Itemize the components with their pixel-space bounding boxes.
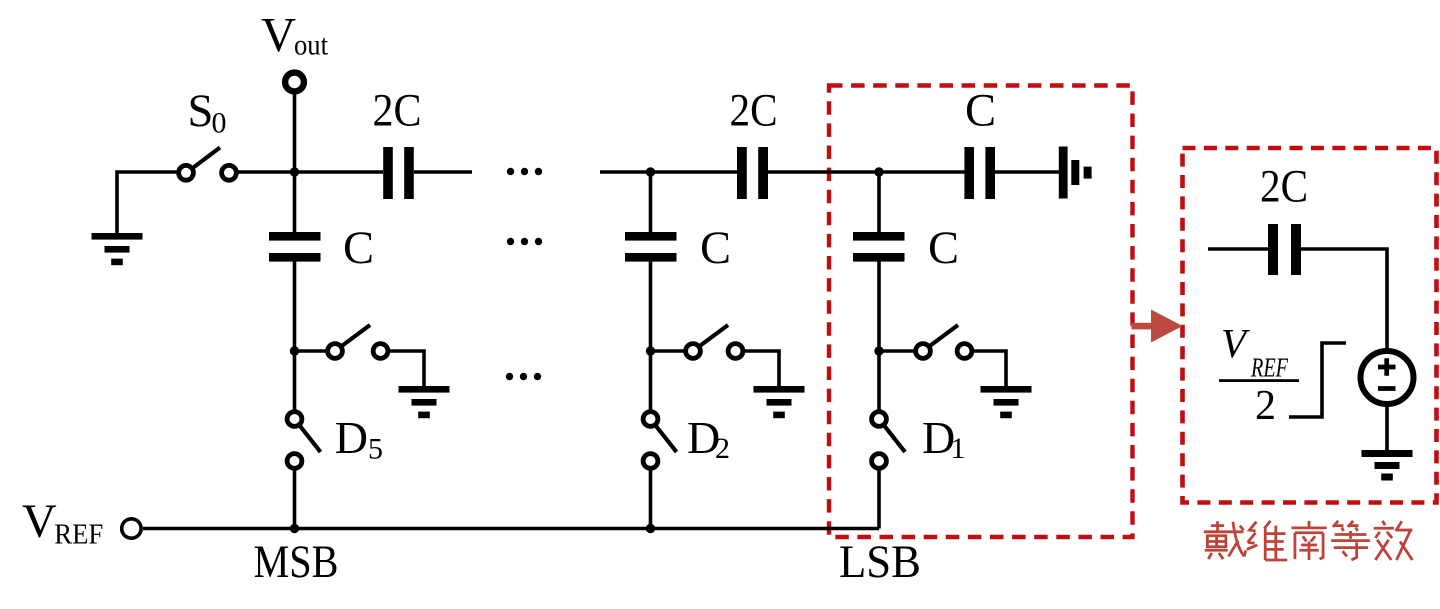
switch LSB reset lever xyxy=(923,325,958,351)
wire MSB reset branch xyxy=(295,349,336,353)
switch MSB reset contact right xyxy=(373,344,388,359)
switch S0 contact right xyxy=(222,165,237,180)
svg-text:REF: REF xyxy=(54,519,103,551)
switch D5 contact top xyxy=(287,412,302,427)
node MSB switch junction xyxy=(290,346,299,355)
node bit2 switch junction xyxy=(646,346,655,355)
switch D1 lever xyxy=(879,419,905,452)
wire MSB reset to ground xyxy=(381,351,425,386)
terminal Vout xyxy=(285,73,304,92)
svg-text:C: C xyxy=(965,86,996,137)
wire bit2 lower vertical xyxy=(649,262,653,412)
svg-text:1: 1 xyxy=(951,432,966,465)
svg-text:2C: 2C xyxy=(1260,162,1308,213)
arrow LSB to Thevenin xyxy=(1132,310,1183,343)
ground MSB reset xyxy=(399,386,450,418)
switch D1 contact bottom xyxy=(872,454,887,469)
svg-text:S: S xyxy=(188,86,214,137)
capacitor C LSB (series) xyxy=(964,147,995,199)
wire VREF bottom rail xyxy=(143,527,879,531)
node at rail bit2 xyxy=(646,167,655,176)
wire bit2 cell vertical xyxy=(649,172,653,232)
svg-text:C: C xyxy=(928,223,959,274)
Thevenin inset: ground xyxy=(1362,450,1413,481)
dots ellipsis cap row xyxy=(507,238,542,245)
switch LSB reset contact right xyxy=(957,344,972,359)
ground bit2 reset xyxy=(754,386,805,418)
terminal VREF xyxy=(122,519,141,538)
svg-text:2C: 2C xyxy=(730,86,778,137)
switch bit2 reset lever xyxy=(693,325,728,351)
wire LSB cell vertical xyxy=(877,172,881,232)
svg-text:5: 5 xyxy=(368,433,383,466)
LSB dashed highlight box xyxy=(829,86,1133,538)
wire LSB reset to ground xyxy=(965,351,1007,386)
wire top rail segment after 2C xyxy=(414,170,472,174)
ground LSB reset xyxy=(981,386,1032,418)
Thevenin equivalent dashed box xyxy=(1183,148,1437,503)
caption: Thevenin equivalent (Chinese) xyxy=(1204,521,1412,560)
hanzi nan xyxy=(1291,521,1326,560)
switch bit2 reset contact left xyxy=(686,344,701,359)
wire top rail segment LSB xyxy=(768,170,965,174)
switch D2 lever xyxy=(651,419,677,452)
hanzi deng xyxy=(1331,521,1370,560)
dots ellipsis switch row xyxy=(506,373,541,380)
wire top rail segment to termination xyxy=(995,170,1059,174)
Thevenin inset: voltage source V1 xyxy=(1361,351,1414,404)
Thevenin inset: wire source to ground xyxy=(1385,404,1389,451)
svg-text:V: V xyxy=(22,495,57,548)
svg-text:2: 2 xyxy=(1255,383,1276,429)
svg-text:2C: 2C xyxy=(373,86,422,137)
hanzi wei xyxy=(1247,521,1287,560)
switch S0 contact left xyxy=(179,165,194,180)
switch D5 lever xyxy=(295,419,321,452)
node at rail LSB xyxy=(874,167,883,176)
hanzi xiao xyxy=(1374,521,1413,560)
svg-text:out: out xyxy=(294,29,329,62)
capacitor C bit2 shunt xyxy=(625,232,677,262)
switch D2 contact bottom xyxy=(643,454,658,469)
ground under S0 xyxy=(92,233,143,265)
svg-text:MSB: MSB xyxy=(254,537,339,588)
wire LSB D1 to rail xyxy=(877,469,881,529)
svg-text:V: V xyxy=(1221,320,1250,366)
svg-text:C: C xyxy=(700,223,731,274)
switch LSB reset contact left xyxy=(916,344,931,359)
svg-text:REF: REF xyxy=(1250,353,1288,383)
switch bit2 reset contact right xyxy=(728,344,743,359)
switch S0 lever xyxy=(186,148,220,174)
dots ellipsis rail top xyxy=(507,168,542,175)
Thevenin inset: wire cap to source xyxy=(1301,249,1387,351)
capacitor C MSB shunt xyxy=(269,232,321,262)
wire Vout vertical xyxy=(293,88,297,232)
switch MSB reset contact left xyxy=(328,344,343,359)
wire top rail segment MSB xyxy=(229,170,383,174)
svg-text:2: 2 xyxy=(715,432,730,465)
Thevenin inset: label VREF/2 fraction xyxy=(1219,320,1299,429)
wire bit2 D2 to rail xyxy=(649,469,653,529)
capacitor 2C MSB (series) xyxy=(383,147,414,199)
wire LSB lower vertical xyxy=(877,262,881,412)
wire LSB reset branch xyxy=(879,349,923,353)
svg-text:V: V xyxy=(261,9,296,62)
svg-text:D: D xyxy=(335,412,368,463)
switch D2 contact top xyxy=(643,412,658,427)
node at Vout rail MSB xyxy=(290,167,299,176)
svg-text:LSB: LSB xyxy=(839,537,921,588)
svg-text:C: C xyxy=(343,223,374,274)
node VREF rail bit2 xyxy=(646,524,655,533)
capacitor C LSB shunt xyxy=(853,232,905,262)
Thevenin inset: capacitor 2C xyxy=(1268,224,1301,275)
switch D1 contact top xyxy=(872,412,887,427)
switch MSB reset lever xyxy=(335,325,370,351)
node VREF rail MSB xyxy=(290,524,299,533)
switch D5 contact bottom xyxy=(287,454,302,469)
Thevenin inset: step symbol xyxy=(1289,343,1346,417)
wire bit2 reset to ground xyxy=(736,351,780,386)
wire MSB D5 to rail xyxy=(293,469,297,529)
node LSB switch junction xyxy=(874,346,883,355)
wire S0 left stub to ground xyxy=(117,172,186,233)
wire bit2 reset branch xyxy=(651,349,694,353)
Thevenin inset: wire left stub xyxy=(1208,247,1268,251)
wire MSB cell vertical xyxy=(293,262,297,412)
wire top rail segment bit2 xyxy=(600,170,737,174)
capacitor 2C bit2 (series) xyxy=(737,147,768,199)
hanzi dai xyxy=(1204,521,1246,559)
svg-text:0: 0 xyxy=(212,107,227,140)
ground termination rotated right xyxy=(1059,147,1092,199)
